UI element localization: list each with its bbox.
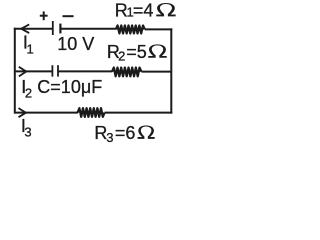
battery positive long plate: [52, 21, 54, 35]
wire: bottom from R3 to right corner: [105, 112, 173, 114]
wire: middle from capacitor to R2: [58, 70, 112, 72]
svg-text:3: 3: [24, 124, 31, 139]
battery minus sign: [63, 15, 74, 17]
omega of R1 label: [156, 3, 175, 16]
svg-text:3: 3: [106, 130, 113, 145]
omega of R2 label: [148, 44, 166, 57]
svg-text:10 V: 10 V: [57, 34, 94, 54]
wire: top from battery to R1: [61, 28, 116, 30]
svg-text:1: 1: [27, 42, 34, 57]
svg-text:=6: =6: [115, 123, 136, 143]
wire: left vertical: [14, 28, 16, 114]
wire: middle from R2 to right wire: [141, 71, 171, 73]
wire: top from R1 to right corner: [145, 28, 173, 30]
svg-text:=4: =4: [133, 0, 154, 20]
wire: right vertical: [170, 28, 172, 113]
wire: middle from left wire to capacitor: [15, 70, 52, 72]
resistor R3: [78, 108, 105, 117]
resistor R2: [112, 68, 141, 77]
omega of R3 label: [138, 125, 155, 138]
wire: bottom from left corner to R3: [15, 112, 78, 114]
battery plus sign: [40, 15, 48, 17]
current arrow I3 (points right): [19, 108, 26, 117]
capacitor C right plate: [57, 65, 59, 76]
svg-text:2: 2: [25, 85, 32, 100]
wire: top from left corner to battery: [14, 28, 52, 30]
svg-text:2: 2: [118, 49, 125, 64]
capacitor C left plate: [51, 65, 53, 76]
battery negative short plate: [59, 24, 61, 34]
current arrow I2 (points right): [19, 67, 27, 77]
resistor R1: [116, 26, 145, 34]
current arrow I1 (points left): [21, 24, 29, 33]
svg-text:C=10μF: C=10μF: [37, 77, 102, 97]
svg-text:=5: =5: [126, 42, 147, 62]
